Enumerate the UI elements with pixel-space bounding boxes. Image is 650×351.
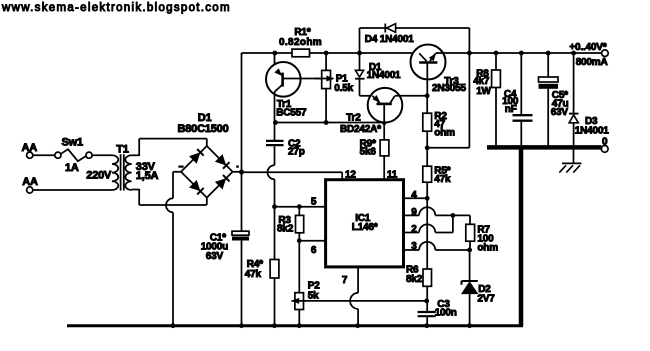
label R8 [476,69,489,80]
svg-text:L146*: L146* [352,222,378,233]
label R3 [278,215,291,226]
label 12 [345,169,356,180]
svg-text:T1: T1 [116,144,129,156]
resistor R5* [423,166,432,182]
svg-text:63V: 63V [551,107,569,118]
label 1N4001 [367,70,401,81]
svg-text:www.skema-elektronik.blogspot.: www.skema-elektronik.blogspot.com [1,2,231,14]
wire [520,53,522,114]
label AA top [22,142,38,154]
svg-text:7: 7 [342,275,348,286]
terminal 0V [601,146,608,153]
svg-text:5: 5 [311,196,317,207]
wire [469,294,471,326]
wire [325,53,327,70]
wire [92,154,112,156]
wire [435,249,469,251]
capacitor C1 [232,231,249,240]
svg-text:47k: 47k [245,269,262,280]
wire [520,122,522,146]
resistor R7 [466,224,475,241]
label T1 [116,144,129,156]
wire [241,53,243,231]
diode D3 [569,53,579,146]
svg-text:47k: 47k [434,174,451,185]
label 3 [411,241,417,252]
label 4 [411,190,417,201]
label 47 [434,119,445,130]
svg-text:1W: 1W [476,86,491,97]
svg-text:0: 0 [602,136,608,147]
svg-text:BC557: BC557 [276,107,307,118]
wire [547,89,549,146]
label ohm [477,242,498,253]
node [571,51,576,56]
node [297,323,302,328]
wire [360,28,470,148]
node [297,204,302,209]
svg-text:1N4001: 1N4001 [367,70,401,81]
label R7 [477,225,490,236]
label 800mA [576,57,608,68]
label R9* [360,139,376,150]
label 1,5A [136,170,159,182]
svg-text:8k2: 8k2 [277,223,294,234]
label 5 [311,196,317,207]
label 63V [206,251,224,262]
label 8k2 [277,223,294,234]
node [467,51,472,56]
svg-text:nF: nF [505,104,517,115]
wire [426,96,428,113]
label D2 [478,284,491,295]
bridge diode top-right [216,155,230,169]
node [272,323,277,328]
wire [33,154,55,156]
svg-text:AA: AA [22,142,38,154]
label R6 [406,265,419,276]
transistor Tr2 [368,88,428,140]
label BC557 [276,107,307,118]
node [357,51,362,56]
label 11 [387,169,398,180]
svg-text:Tr2: Tr2 [346,113,361,124]
node [171,323,176,328]
wire [275,122,385,124]
label 5k [308,290,319,301]
label 100 [502,96,519,107]
wire [426,317,428,325]
svg-text:27p: 27p [288,147,305,158]
bridge plus mark [236,165,239,167]
wire pin5 [275,206,326,208]
label 47u [552,99,569,110]
wire pin7 [357,267,359,293]
wire [132,189,207,205]
wire [274,146,276,165]
label R1* [294,27,310,38]
label B80C1500 [178,123,229,135]
bridge diode bottom-right [216,175,230,189]
node bridge plus [239,169,244,174]
label 1000u [201,242,228,253]
svg-text:0.5k: 0.5k [334,83,353,94]
resistor R1 [292,49,310,57]
wire [291,298,427,304]
wire [436,52,602,54]
label AA bottom [22,176,38,188]
bridge rectifier D1 diamond [181,146,233,198]
node [272,204,277,209]
label IC1 [355,213,371,224]
wire pin2 [404,232,420,234]
label 100 [477,234,494,245]
label D3 [585,116,598,127]
node [546,51,551,56]
svg-text:12: 12 [345,169,356,180]
wire hop [350,293,358,309]
wire [495,53,497,70]
svg-text:AA: AA [22,176,38,188]
svg-text:D4 1N4001: D4 1N4001 [365,34,414,45]
wire [357,309,359,326]
svg-text:4: 4 [411,190,417,201]
svg-text:63V: 63V [206,251,224,262]
svg-text:5k6: 5k6 [360,147,377,158]
resistor R4* [270,260,279,279]
thick vertical [519,147,524,325]
node [425,145,430,150]
node [382,120,387,125]
node [355,323,360,328]
svg-text:1A: 1A [65,162,79,174]
node [467,323,472,328]
label 4k7 [473,76,490,87]
resistor R8 [492,70,501,88]
label 100n [435,308,457,319]
capacitor C2 [266,141,284,145]
label 7 [342,275,348,286]
wire hop [166,198,173,212]
label 9 [411,207,417,218]
wire [298,310,300,326]
bridge diode top-left [190,149,204,163]
wire pin9 [404,214,420,216]
label ohm [434,128,455,139]
resistor R6 [423,269,432,286]
label C3 [437,299,450,310]
label 47k [245,269,262,280]
label 2N3055 [432,83,466,94]
label Tr2 [346,113,361,124]
svg-text:6: 6 [311,245,317,256]
svg-text:ohm: ohm [477,242,498,253]
bridge minus mark [178,166,183,168]
wire [426,131,428,148]
resistor R2 [423,113,432,131]
transformer T1 [112,154,132,190]
terminal +output [602,50,609,57]
wire [132,139,207,156]
label 1W [476,86,491,97]
0V rail [487,145,601,150]
title url text [1,2,231,14]
label 6 [311,245,317,256]
wire hop [419,207,435,215]
label +0..40V* [569,42,606,53]
label 0 [602,136,608,147]
node [519,51,524,56]
label 1A [65,162,79,174]
wire [426,286,428,311]
svg-text:3: 3 [411,241,417,252]
node [239,170,244,175]
svg-text:5k: 5k [308,290,319,301]
wire [233,171,242,173]
wire [427,147,469,149]
wire [495,88,497,146]
svg-text:Sw1: Sw1 [62,137,83,149]
label Sw1 [62,137,83,149]
svg-text:2V7: 2V7 [477,294,495,305]
node [467,248,472,253]
wire [241,241,243,326]
potentiometer P1 [315,70,334,122]
label C1* [210,232,226,243]
svg-text:0.82ohm: 0.82ohm [279,37,322,48]
label P1 [336,74,348,85]
wire [469,241,471,281]
wire [298,207,300,216]
wire [426,182,428,269]
wire [274,278,276,326]
label BD242A* [340,124,381,135]
node [424,299,429,304]
wire [275,53,282,76]
svg-text:ohm: ohm [434,128,455,139]
wire [298,233,300,293]
wire hop [419,224,435,232]
capacitor C5* [539,77,559,89]
label L146* [352,222,378,233]
wire [172,212,174,325]
label D1 bridge [198,112,212,124]
wire [274,179,276,259]
node [425,93,430,98]
potentiometer P2 [295,293,304,310]
wire pin12 [242,172,343,179]
node [297,238,302,243]
svg-text:BD242A*: BD242A* [340,124,381,135]
switch Sw1 [55,149,92,161]
label 0.82ohm [279,37,322,48]
label 63V [551,107,569,118]
node [494,51,499,56]
node [451,213,456,218]
capacitor C3 [418,312,436,316]
wire [547,53,549,77]
node [324,120,329,125]
svg-text:8k2: 8k2 [406,274,423,285]
label R4* [247,259,263,270]
diode D1 [355,53,372,96]
svg-text:11: 11 [387,169,398,180]
node [324,51,329,56]
diode D4 [385,24,395,33]
label R5* [434,166,450,177]
label 0.5k [334,83,353,94]
resistor R9* [380,140,389,156]
transistor Tr3 [411,45,446,96]
label C4 [504,89,517,100]
svg-text:9: 9 [411,207,417,218]
svg-text:1,5A: 1,5A [136,170,159,182]
label 27p [288,147,305,158]
node [273,51,278,56]
label R2 [434,111,447,122]
node [239,323,244,328]
svg-text:D1: D1 [198,112,212,124]
wire [426,148,428,166]
label 220V [86,170,112,182]
IC1 L146 box [326,180,404,267]
label 5k6 [360,147,377,158]
wire [435,215,453,232]
terminal AA bottom [27,187,33,193]
svg-text:2N3055: 2N3055 [432,83,466,94]
label Tr3 [444,76,459,87]
wire [242,52,420,54]
label 8k2 [406,274,423,285]
svg-text:220V: 220V [86,170,112,182]
label 33V [136,161,156,173]
label C2 [288,139,301,150]
svg-text:800mA: 800mA [576,57,608,68]
zener D2 [462,281,478,294]
ground [559,150,581,173]
svg-text:100n: 100n [435,308,457,319]
capacitor C4 [513,115,533,121]
svg-text:B80C1500: B80C1500 [178,123,229,135]
node [424,323,429,328]
svg-text:2: 2 [411,224,417,235]
wire pin6 [299,240,325,242]
label 47k [434,174,451,185]
label C5* [552,90,568,101]
wire [383,156,385,180]
wire hop [268,165,275,179]
wire [33,189,112,191]
label P2 [308,281,320,292]
svg-text:+0..40V*: +0..40V* [569,42,606,53]
transistor Tr1 [266,62,333,140]
wire pin4 [404,197,428,199]
label 2V7 [477,294,495,305]
terminal AA top [27,152,33,158]
wire [435,215,470,224]
bottom rail [67,324,523,327]
label D4 1N4001 [365,34,414,45]
bridge diode bottom-left [190,181,204,195]
label nF [505,104,517,115]
svg-text:1N4001: 1N4001 [575,126,609,137]
wire hop [419,242,435,250]
label Tr1 [277,99,292,110]
resistor R3 [296,215,304,232]
node [273,120,278,125]
wire [173,172,181,199]
label 1N4001 [575,126,609,137]
node [425,196,430,201]
label 2 [411,224,417,235]
wire pin3 [404,249,420,251]
label D1 [369,62,382,73]
